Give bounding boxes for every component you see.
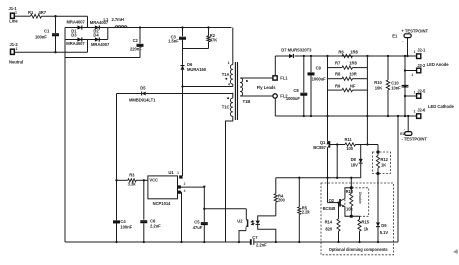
svg-text:2.2k: 2.2k — [302, 210, 311, 215]
resistor R15 — [359, 216, 361, 219]
wire FB to opto — [203, 208, 205, 210]
svg-text:1.5nF: 1.5nF — [168, 39, 179, 44]
svg-text:47uF: 47uF — [193, 225, 203, 230]
wire T1 pin1 from bus — [232, 28, 234, 65]
svg-text:T1C: T1C — [222, 104, 230, 109]
svg-text:R14: R14 — [325, 219, 333, 224]
svg-text:18V: 18V — [351, 162, 359, 167]
diode D9 5.1V zener — [376, 222, 380, 226]
svg-text:1K: 1K — [381, 162, 386, 167]
transistor Q2 BC848 — [327, 178, 329, 203]
svg-text:-: - — [402, 39, 403, 43]
wire bridge left side — [64, 28, 66, 40]
wire base branch — [336, 145, 338, 178]
resistor R3 — [128, 179, 136, 182]
svg-text:J2-1: J2-1 — [417, 47, 426, 52]
svg-text:R15: R15 — [361, 219, 369, 224]
svg-text:BC848: BC848 — [323, 206, 336, 211]
svg-text:4: 4 — [184, 189, 186, 193]
svg-text:R11: R11 — [345, 137, 353, 142]
svg-text:C6: C6 — [150, 218, 156, 223]
svg-text:R8: R8 — [335, 72, 341, 77]
diode D1 MRA4007 — [77, 25, 81, 29]
svg-text:2.2uF: 2.2uF — [150, 224, 161, 229]
svg-text:D9: D9 — [381, 223, 387, 228]
svg-text:5.1V: 5.1V — [380, 230, 389, 235]
speck — [453, 249, 458, 254]
svg-text:D3: D3 — [71, 33, 77, 38]
connector FL1 — [273, 76, 277, 80]
svg-text:R13: R13 — [346, 189, 354, 194]
capacitor C5 — [203, 185, 205, 187]
wire Neutral tap into bridge — [87, 40, 89, 53]
transformer T1 secondary T1B — [240, 78, 242, 83]
svg-text:1: 1 — [411, 73, 413, 77]
svg-text:1: 1 — [414, 91, 416, 95]
svg-text:D5: D5 — [140, 86, 146, 91]
svg-text:C9: C9 — [316, 66, 322, 71]
svg-text:Neutral: Neutral — [9, 60, 23, 65]
resistor R7 — [328, 67, 343, 69]
wire DC- vertical — [64, 40, 66, 243]
wire U1 gnd down — [181, 192, 183, 242]
svg-text:LED Cathode: LED Cathode — [428, 104, 454, 109]
svg-text:1R8: 1R8 — [350, 49, 358, 54]
wire T1B top to FL1 — [240, 77, 273, 79]
svg-text:47K: 47K — [210, 38, 218, 43]
resistor R12 optional — [377, 145, 379, 156]
svg-text:J2-6: J2-6 — [417, 107, 426, 112]
transistor Q1 BC857 — [327, 116, 329, 141]
resistor R4 — [275, 202, 277, 216]
svg-text:J2-2: J2-2 — [417, 63, 426, 68]
testpoint E2 — [407, 115, 409, 117]
inductor L1 — [115, 26, 118, 28]
svg-text:3.3k: 3.3k — [128, 182, 137, 187]
wire VCC to R3 — [115, 179, 117, 181]
svg-text:Line: Line — [9, 19, 18, 24]
capacitor C3 — [181, 26, 183, 28]
wire aux line — [117, 93, 141, 95]
svg-text:100: 100 — [346, 146, 354, 151]
opto U2 led — [256, 221, 260, 225]
resistor R11 — [329, 144, 345, 146]
diode D2 MRA4007 — [95, 25, 99, 29]
svg-text:10k: 10k — [346, 206, 354, 211]
wire sense left column — [327, 56, 329, 116]
wire Neutral — [15, 51, 88, 53]
wire sense right column — [366, 56, 368, 145]
svg-text:220nF: 220nF — [130, 47, 142, 52]
resistor R10 — [387, 55, 389, 57]
svg-text:NF: NF — [350, 83, 356, 88]
resistor R6 — [326, 55, 328, 57]
wire FL1 up to bus — [274, 56, 276, 76]
svg-text:820: 820 — [325, 226, 333, 231]
svg-text:R6: R6 — [338, 49, 344, 54]
svg-text:Optional dimming components: Optional dimming components — [329, 247, 389, 252]
svg-text:4R7: 4R7 — [39, 10, 47, 15]
svg-text:FL1: FL1 — [280, 76, 288, 81]
svg-text:U1: U1 — [168, 170, 174, 175]
wire return bus down right — [397, 115, 399, 117]
wire FB node line — [276, 177, 361, 179]
svg-text:1: 1 — [228, 61, 230, 65]
resistor R14 — [337, 201, 339, 203]
resistor R5 — [298, 177, 300, 179]
capacitor C9 — [310, 55, 312, 57]
svg-text:2.7mH: 2.7mH — [112, 17, 124, 22]
svg-text:R7: R7 — [335, 61, 341, 66]
connector J1-2 — [11, 49, 15, 54]
connector J2-6 — [417, 114, 421, 119]
svg-text:1: 1 — [15, 11, 17, 15]
svg-text:E2: E2 — [400, 132, 404, 136]
wire top DC bus — [108, 27, 232, 29]
wire Line to R1 — [15, 15, 31, 17]
svg-text:C7: C7 — [252, 235, 258, 240]
wire secondary top bus — [275, 55, 289, 57]
svg-text:MRA4007: MRA4007 — [91, 42, 110, 47]
svg-text:1: 1 — [16, 47, 18, 51]
connector J2-2 — [404, 69, 406, 71]
diode D8 18V zener — [360, 145, 362, 160]
opto U2 transistor — [247, 219, 249, 227]
wire secondary ground rail — [254, 241, 398, 243]
capacitor C4 — [113, 220, 120, 222]
svg-text:D7 MURS320T3: D7 MURS320T3 — [281, 47, 312, 52]
connector J2-1 — [417, 54, 421, 59]
capacitor C8 — [303, 55, 305, 57]
resistor R1 — [31, 14, 42, 18]
capacitor C7 Y-cap — [250, 239, 252, 245]
svg-text:R12: R12 — [380, 157, 388, 162]
diode D6 MURA160 — [182, 49, 184, 65]
wire R1 to bridge tap — [42, 15, 88, 17]
diode D3 MRA4007 — [77, 37, 81, 41]
svg-text:200: 200 — [278, 198, 286, 203]
svg-text:J2-5: J2-5 — [417, 89, 426, 94]
transformer T1 core — [234, 62, 236, 120]
svg-text:T1B: T1B — [243, 99, 251, 104]
diode D4 MRA4007 — [95, 37, 99, 41]
svg-text:VCC: VCC — [149, 178, 158, 183]
svg-text:1: 1 — [414, 110, 416, 114]
connector J2-5 — [404, 95, 406, 97]
wire secondary return bus — [275, 115, 416, 117]
resistor R8 — [328, 78, 343, 80]
wire bridge right side — [107, 28, 109, 40]
svg-text:NCP1014: NCP1014 — [153, 201, 172, 206]
wire Q2 collector — [345, 188, 351, 199]
testpoint E1 — [407, 38, 409, 56]
diode D5 MMBD914LT1 — [142, 92, 146, 96]
svg-text:C8: C8 — [293, 88, 299, 93]
wire bridge bottom rail — [65, 39, 108, 41]
svg-text:2: 2 — [184, 182, 186, 186]
svg-text:Fly Leads: Fly Leads — [257, 85, 277, 90]
svg-text:C2: C2 — [133, 38, 139, 43]
wire Line tap into bridge — [87, 16, 89, 27]
wire drain node — [181, 85, 183, 87]
wire clamp node — [183, 48, 209, 50]
svg-text:10K: 10K — [375, 85, 383, 90]
svg-text:Disable: Disable — [358, 192, 362, 204]
svg-text:1k: 1k — [364, 226, 369, 231]
wire T1 pin4 to drain — [232, 84, 234, 86]
svg-text:MMBD914LT1: MMBD914LT1 — [129, 98, 156, 103]
svg-text:BC857: BC857 — [313, 145, 326, 150]
svg-text:R1: R1 — [28, 10, 34, 15]
svg-text:R9: R9 — [335, 83, 341, 88]
svg-text:T1A: T1A — [222, 72, 230, 77]
diode D7 MURS320T3 — [289, 54, 293, 58]
transformer T1 primary T1A — [230, 65, 232, 70]
transformer T1 aux winding T1C — [232, 93, 234, 98]
svg-text:1000uF: 1000uF — [312, 76, 326, 81]
svg-text:LED Anode: LED Anode — [427, 62, 450, 67]
svg-text:R3: R3 — [129, 172, 135, 177]
svg-text:MRA4007: MRA4007 — [66, 41, 85, 46]
capacitor C6 — [143, 179, 145, 181]
svg-text:+ TESTPOINT: + TESTPOINT — [401, 29, 428, 34]
svg-text:D8: D8 — [351, 157, 357, 162]
capacitor C10 — [404, 55, 406, 57]
svg-text:1: 1 — [414, 50, 416, 54]
svg-text:L1: L1 — [104, 17, 110, 22]
wire opto led cathode — [258, 225, 276, 242]
op-amp U1 NCP1014 — [148, 176, 178, 199]
svg-text:100nF: 100nF — [120, 224, 132, 229]
svg-text:Q2: Q2 — [329, 198, 335, 203]
wire VCC column — [116, 94, 118, 221]
wire primary ground rail — [65, 241, 251, 243]
wire bridge top rail — [65, 27, 108, 29]
wire T1C return — [226, 116, 233, 242]
connector J1-1 — [11, 13, 15, 18]
svg-text:MRA4007: MRA4007 — [67, 20, 86, 25]
svg-text:10nF: 10nF — [391, 85, 401, 90]
wire T1B bottom to FL2 — [240, 95, 273, 97]
wire opto led anode — [258, 216, 276, 221]
optional dimming components box — [321, 183, 394, 255]
svg-text:MURA160: MURA160 — [187, 67, 207, 72]
resistor R13 optional — [350, 178, 352, 194]
svg-text:U2: U2 — [237, 219, 243, 224]
svg-text:D4: D4 — [93, 33, 99, 38]
wire Q2 emitter — [345, 207, 360, 217]
svg-text:4: 4 — [228, 82, 230, 86]
resistor R9 — [328, 89, 343, 91]
svg-text:100nF: 100nF — [35, 35, 47, 40]
wire opto emitter — [239, 231, 246, 242]
svg-text:1R8: 1R8 — [349, 61, 357, 66]
svg-text:10R: 10R — [349, 72, 357, 77]
capacitor C2 — [139, 26, 141, 28]
svg-text:- TESTPOINT: - TESTPOINT — [401, 137, 427, 142]
svg-text:2.2nF: 2.2nF — [256, 243, 267, 248]
svg-text:1000uF: 1000uF — [286, 96, 300, 101]
connector FL2 — [273, 94, 277, 98]
resistor R2 — [207, 26, 209, 28]
svg-text:E1: E1 — [392, 33, 398, 38]
svg-text:C1: C1 — [44, 28, 50, 33]
svg-text:1: 1 — [177, 171, 179, 175]
wire C2 return to DC- — [65, 57, 140, 59]
svg-text:C4: C4 — [120, 219, 126, 224]
wire FL2 down to return bus — [274, 98, 276, 116]
capacitor C1 — [55, 16, 57, 33]
svg-text:-: - — [404, 127, 405, 131]
